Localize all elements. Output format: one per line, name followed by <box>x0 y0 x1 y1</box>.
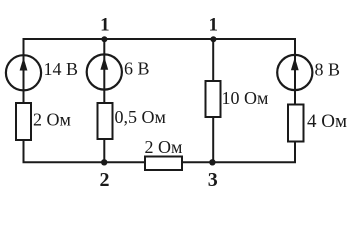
svg-text:2 Ом: 2 Ом <box>145 137 183 157</box>
label 2 Ом (R5) <box>145 137 183 157</box>
label 0,5 Ом (R2) <box>115 107 166 127</box>
svg-text:4 Ом: 4 Ом <box>307 111 347 132</box>
label 10 Ом (R3) <box>222 88 269 108</box>
svg-text:2 Ом: 2 Ом <box>33 109 71 129</box>
label 14 В <box>44 59 79 79</box>
svg-text:8 В: 8 В <box>315 59 341 79</box>
resistor R2 0,5 Ом <box>98 103 113 139</box>
wire middle branch vertical <box>212 39 214 162</box>
label 2 Ом (R1) <box>33 109 71 129</box>
label 4 Ом (R4) <box>307 111 347 132</box>
node 1 left junction <box>101 36 107 42</box>
svg-text:1: 1 <box>209 15 219 36</box>
voltage source E1 14 В <box>6 55 41 90</box>
node 1 left label <box>100 15 110 36</box>
resistor R3 10 Ом <box>206 81 221 117</box>
resistor R4 4 Ом <box>288 105 304 142</box>
svg-text:6 В: 6 В <box>124 59 150 79</box>
wire second branch vertical <box>103 39 105 162</box>
resistor R1 2 Ом <box>16 103 31 140</box>
voltage source E3 8 В <box>277 55 312 90</box>
wire left branch vertical <box>23 38 25 163</box>
node 3 junction <box>209 159 215 165</box>
wire right branch vertical <box>294 38 296 163</box>
label 8 В <box>315 59 341 79</box>
svg-text:10 Ом: 10 Ом <box>222 88 269 108</box>
node 1 right label <box>209 15 219 36</box>
wire top horizontal node1 bus <box>23 38 297 40</box>
svg-text:3: 3 <box>208 169 218 191</box>
svg-text:14 В: 14 В <box>44 59 79 79</box>
svg-text:1: 1 <box>100 15 110 36</box>
svg-text:2: 2 <box>100 169 110 191</box>
voltage source E2 6 В <box>87 54 122 89</box>
node 2 label <box>100 169 110 191</box>
wire bottom horizontal node2-3 bus <box>23 161 297 163</box>
resistor R5 2 Ом horizontal <box>145 157 182 171</box>
label 6 В <box>124 59 150 79</box>
node 1 right junction <box>210 36 216 42</box>
node 2 junction <box>101 159 107 165</box>
node 3 label <box>208 169 218 191</box>
svg-text:0,5 Ом: 0,5 Ом <box>115 107 166 127</box>
